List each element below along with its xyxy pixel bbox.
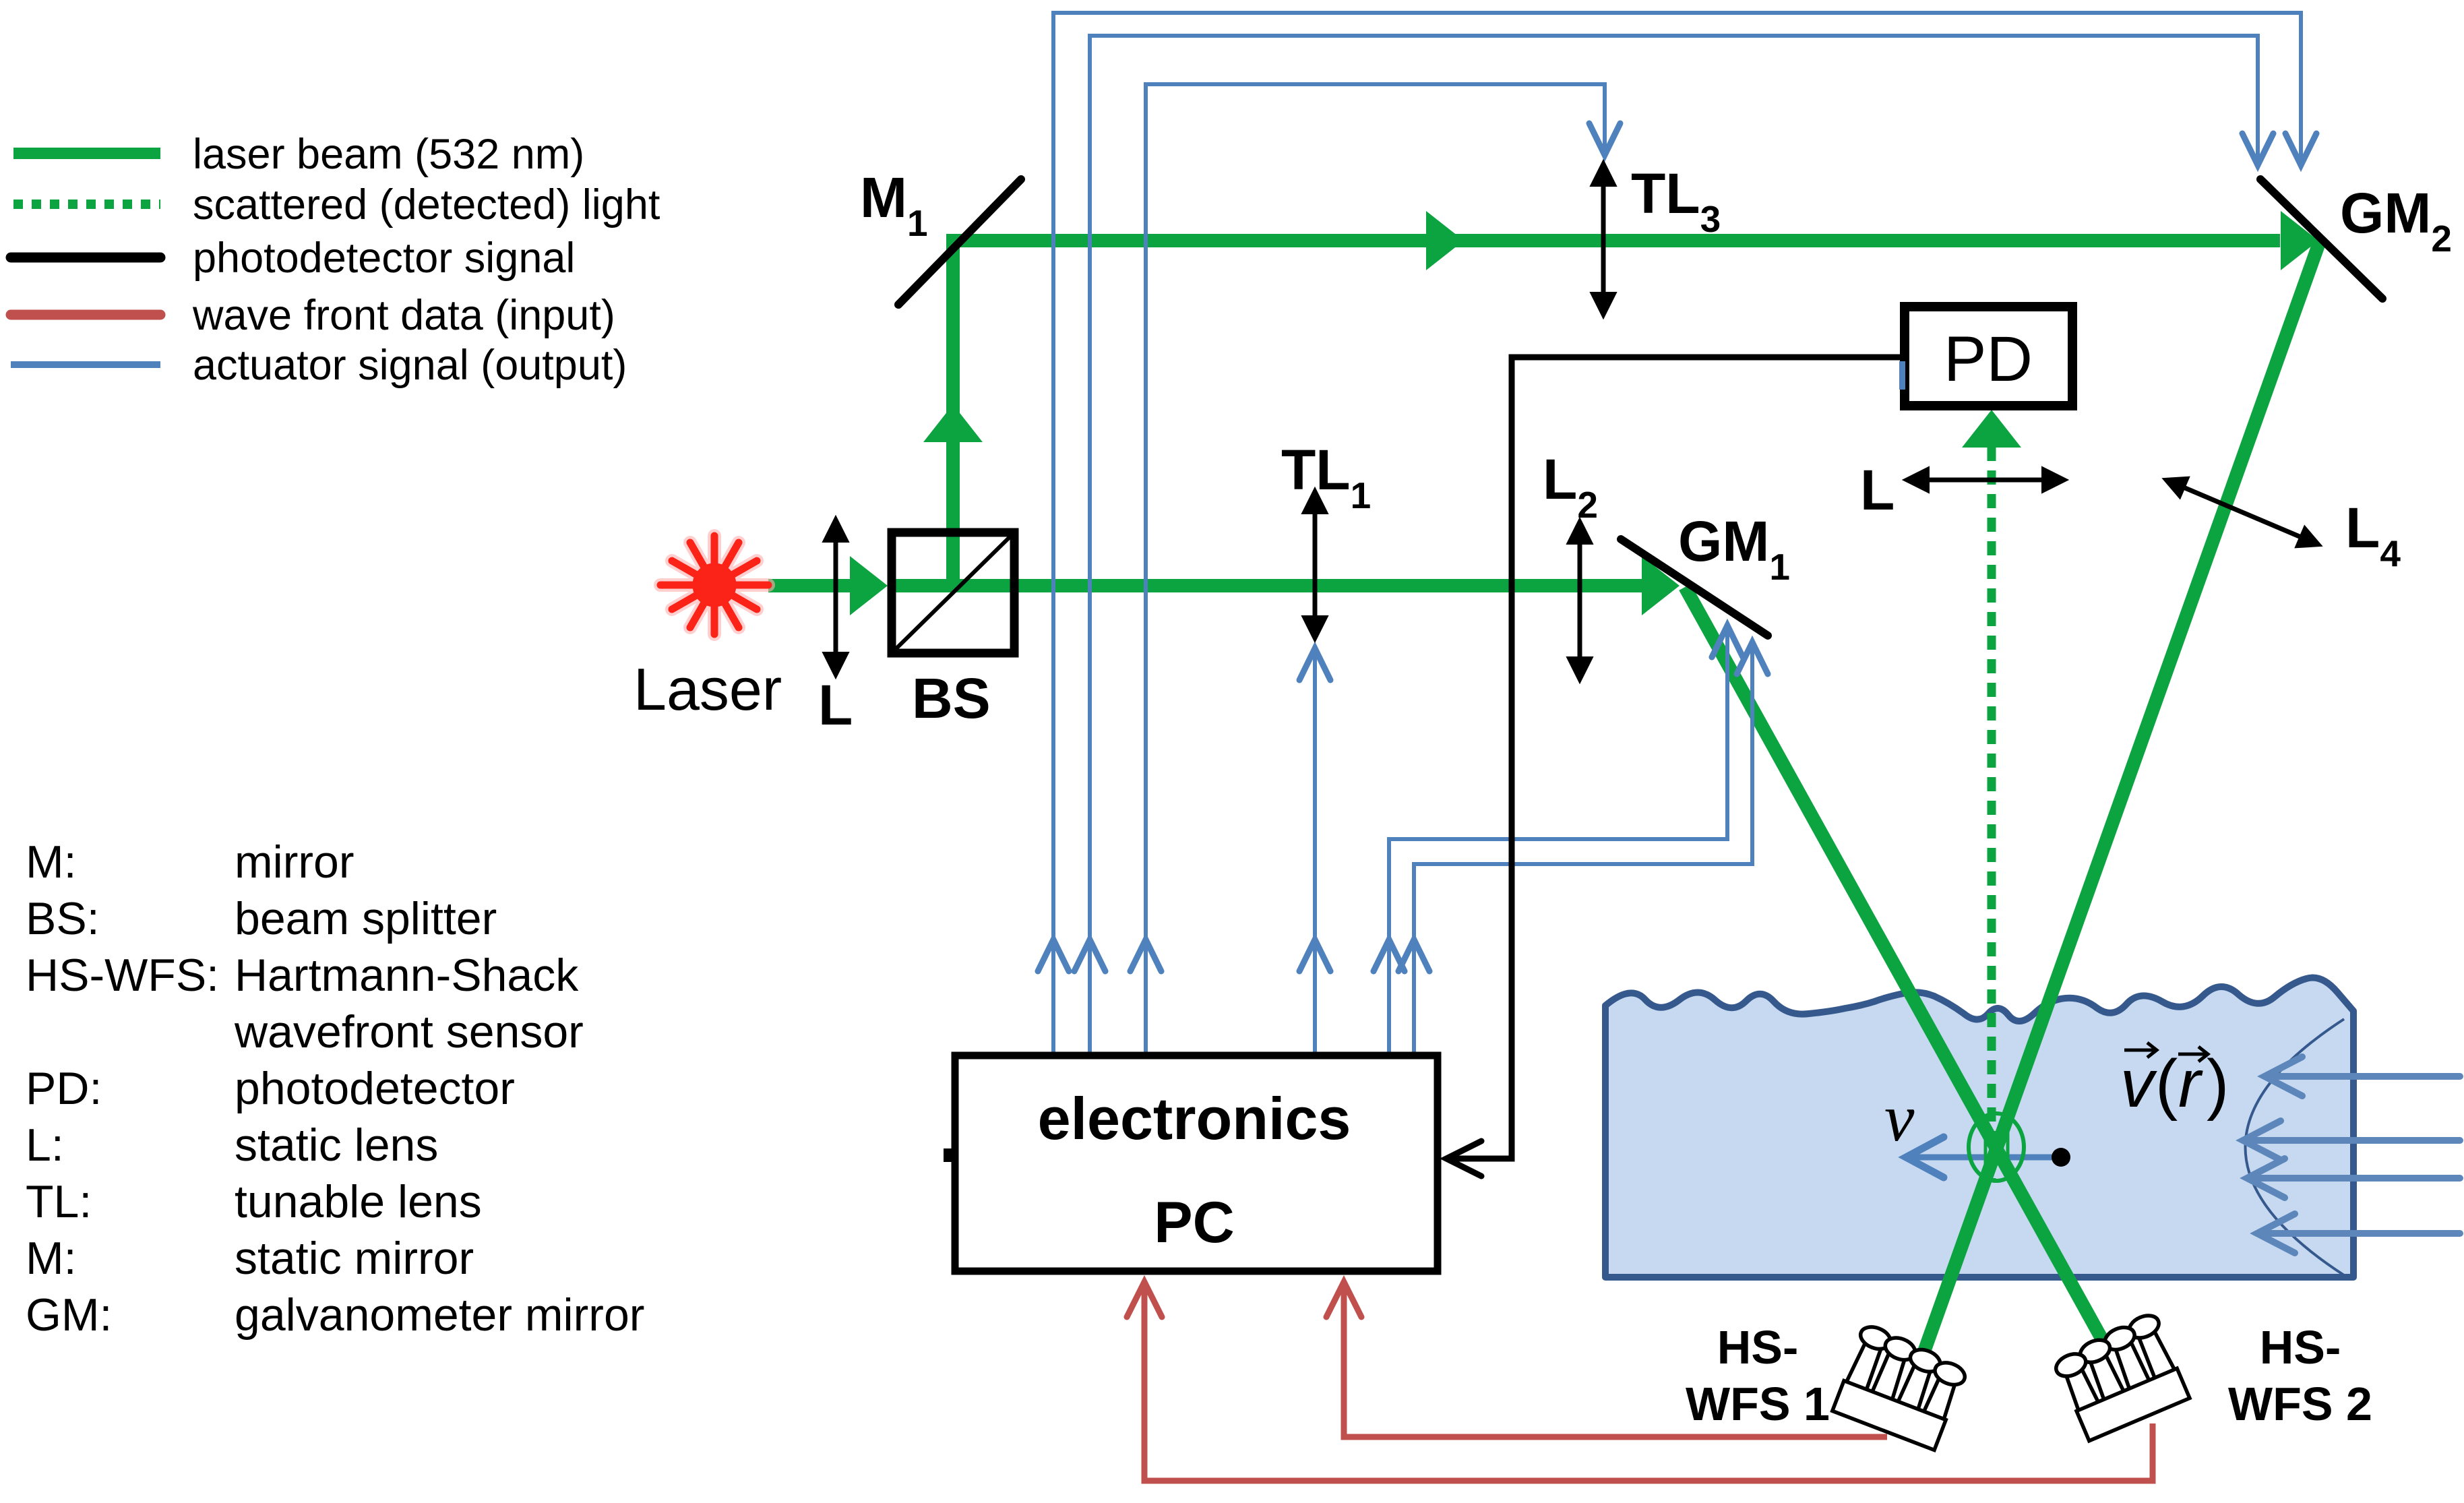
svg-text:static lens: static lens <box>235 1119 438 1171</box>
svg-text:M:: M: <box>26 836 77 888</box>
laser beam: laser to BS <box>768 211 2318 615</box>
Hartmann-Shack wavefront sensor 1 <box>1831 1323 1971 1451</box>
actuator signal wire: electronics to GM1 (a) <box>1389 625 1727 1052</box>
scattered light arrowhead into PD <box>1962 410 2021 448</box>
legend: laser beam sample line <box>13 148 160 159</box>
flow velocity profile curve v(r) <box>2246 1019 2345 1275</box>
laser source (red star) <box>660 536 768 634</box>
Hartmann-Shack wavefront sensor 2 <box>2050 1312 2191 1442</box>
laser beam: GM2 down through focus to HS-WFS 1 <box>1923 239 2320 1353</box>
tunable lens TL1: vertical double arrow <box>1302 488 1328 642</box>
static lens L (after laser): vertical double arrow <box>823 516 849 678</box>
svg-text:photodetector signal: photodetector signal <box>193 235 575 282</box>
galvanometer mirror GM1 <box>1621 539 1768 636</box>
laser beam: BS up to M1 <box>946 235 960 586</box>
svg-text:Laser: Laser <box>634 656 782 723</box>
flow arrow 1 <box>2243 1057 2460 1253</box>
svg-text:HS-: HS- <box>2260 1321 2341 1374</box>
electronics PC box <box>955 1055 1438 1271</box>
legend texts <box>192 131 660 389</box>
legend: photodetector signal sample line <box>11 253 160 263</box>
svg-text:L: L <box>1860 458 1895 522</box>
laser beam: M1 to GM2 <box>946 234 2280 247</box>
static lens L4: tilted double arrow <box>2157 466 2328 559</box>
svg-text:v: v <box>2120 1046 2157 1122</box>
svg-text:GM:: GM: <box>26 1289 112 1341</box>
svg-text:PD: PD <box>1944 324 2033 395</box>
svg-text:tunable lens: tunable lens <box>235 1176 482 1227</box>
svg-text:BS:: BS: <box>26 893 100 944</box>
svg-text:wave front data (input): wave front data (input) <box>192 292 615 339</box>
svg-text:L: L <box>818 673 853 737</box>
galvanometer mirror GM2 <box>2260 179 2382 299</box>
actuator signal wire: electronics to GM1 (b) <box>1414 642 1752 1052</box>
actuator signal wire: electronics to GM2 (outer) <box>1053 13 2301 1052</box>
flow arrow 4 <box>2257 1214 2460 1253</box>
svg-text:PC: PC <box>1154 1190 1234 1255</box>
svg-text:M:: M: <box>26 1233 77 1284</box>
actuator signal wire: electronics to TL1 <box>1313 650 1317 1052</box>
svg-text:static mirror: static mirror <box>235 1233 474 1284</box>
svg-text:BS: BS <box>912 667 991 730</box>
actuator signal wire: electronics to TL3 <box>1146 84 1605 1052</box>
svg-text:wavefront sensor: wavefront sensor <box>234 1006 584 1057</box>
svg-text:WFS 2: WFS 2 <box>2228 1378 2372 1430</box>
svg-text:scattered (detected) light: scattered (detected) light <box>193 181 660 228</box>
svg-text:electronics: electronics <box>1038 1085 1351 1152</box>
legend: wave front data sample line <box>11 310 160 320</box>
svg-text:laser beam (532 nm): laser beam (532 nm) <box>193 131 584 178</box>
svg-text:beam splitter: beam splitter <box>235 893 497 944</box>
vector arrows over v and r <box>2124 1043 2208 1062</box>
actuator stub at PD <box>1899 361 1905 390</box>
laser beam: GM1 down through focus to HS-WFS 2 <box>1685 587 2106 1347</box>
photodetector signal arrowhead into electronics <box>1446 1141 1481 1176</box>
svg-text:r: r <box>2178 1046 2203 1122</box>
label v(r) vector field <box>2120 1046 2229 1122</box>
abbreviation legend <box>26 836 644 1341</box>
svg-text:HS-: HS- <box>1717 1321 1799 1374</box>
laser beam: BS to GM1 <box>888 579 1642 592</box>
velocity arrow v (blue, pointing left) with black dot <box>1906 1137 2070 1177</box>
static lens L (before PD): horizontal double arrow <box>1903 467 2068 493</box>
svg-text:galvanometer mirror: galvanometer mirror <box>235 1289 644 1341</box>
wave front data wire: HS-WFS 2 to electronics <box>1144 1285 2153 1481</box>
actuator arrowheads (open V) <box>1038 123 2316 971</box>
tunable lens TL3: vertical double arrow <box>1591 160 1616 318</box>
svg-text:(: ( <box>2155 1046 2178 1122</box>
PD box <box>1905 307 2072 406</box>
legend: actuator signal sample line <box>11 361 160 368</box>
notch on electronics box left edge <box>944 1148 953 1162</box>
svg-text:actuator signal (output): actuator signal (output) <box>193 342 627 389</box>
flow arrow 2 <box>2243 1121 2460 1160</box>
legend: scattered light sample line <box>13 200 160 209</box>
svg-text:Hartmann-Shack: Hartmann-Shack <box>235 950 579 1001</box>
flow arrow 3 <box>2247 1159 2460 1198</box>
measurement volume (striped ellipse at beam crossing) <box>1969 1113 2024 1181</box>
svg-text:photodetector: photodetector <box>235 1063 515 1114</box>
wave front data wire: HS-WFS 1 to electronics <box>1344 1285 1887 1437</box>
svg-text:v: v <box>1884 1080 1915 1155</box>
static lens L2: vertical double arrow <box>1567 518 1593 683</box>
svg-text:TL:: TL: <box>26 1176 92 1227</box>
mirror M1 <box>898 179 1021 305</box>
photodetector signal wire: PD to electronics <box>1449 357 1903 1159</box>
scattered light: dashed green line from focus up to PD <box>1988 447 1996 1179</box>
svg-text:PD:: PD: <box>26 1063 102 1114</box>
beam splitter BS <box>892 532 1014 653</box>
water tank <box>1605 978 2353 1277</box>
svg-text:): ) <box>2207 1046 2229 1122</box>
svg-text:L:: L: <box>26 1119 64 1171</box>
svg-text:WFS 1: WFS 1 <box>1686 1378 1830 1430</box>
svg-text:HS-WFS:: HS-WFS: <box>26 950 219 1001</box>
svg-text:mirror: mirror <box>235 836 355 888</box>
actuator signal wire: electronics to GM2 (inner) <box>1090 36 2258 1052</box>
